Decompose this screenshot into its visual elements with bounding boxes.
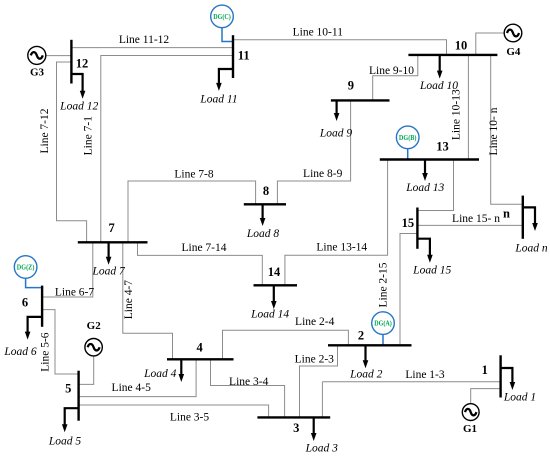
- wire Line 1-3 riser: [321, 382, 323, 418]
- load arrow Load 13: [424, 160, 426, 176]
- svg-text:Line 7-14: Line 7-14: [181, 242, 226, 254]
- svg-text:13: 13: [436, 140, 449, 154]
- svg-text:Line 4-5: Line 4-5: [112, 382, 152, 394]
- svg-text:10: 10: [455, 39, 468, 53]
- wire bus 13 to bus 15: [417, 160, 453, 211]
- wire Line 7-14: [138, 242, 263, 285]
- svg-text:9: 9: [348, 78, 354, 92]
- svg-text:Load 8: Load 8: [246, 228, 280, 240]
- bus 12: [70, 40, 72, 84]
- wire Line 9-10: [373, 55, 418, 101]
- svg-text:Line 3-5: Line 3-5: [170, 411, 210, 423]
- svg-text:DG(B): DG(B): [399, 134, 417, 142]
- svg-text:Load 13: Load 13: [405, 182, 444, 194]
- svg-text:Load 10: Load 10: [419, 80, 458, 92]
- svg-text:Line 9-10: Line 9-10: [369, 65, 414, 77]
- svg-text:12: 12: [76, 57, 89, 71]
- svg-text:Load 11: Load 11: [199, 93, 237, 105]
- DG unit DG(Z): [14, 256, 37, 279]
- load arrow Load 12: [71, 74, 82, 93]
- load arrow Load 3: [313, 417, 315, 435]
- load arrow Load 4: [180, 359, 182, 376]
- svg-text:Line 10- n: Line 10- n: [488, 107, 500, 155]
- DG unit DG(B): [396, 126, 419, 149]
- generator G4: [504, 24, 522, 42]
- svg-text:n: n: [503, 207, 510, 221]
- wire Line 10-n: [491, 55, 523, 204]
- load arrow Load 14: [273, 285, 275, 303]
- wire Line 11-12: [71, 47, 233, 49]
- bus 15: [416, 208, 418, 249]
- svg-text:Load 6: Load 6: [3, 346, 37, 358]
- svg-text:11: 11: [238, 49, 250, 63]
- wire DG(Z) to bus 6: [26, 278, 42, 288]
- wire Line 4-7: [123, 242, 173, 359]
- svg-text:Load 4: Load 4: [143, 368, 177, 380]
- svg-text:Line 10-13: Line 10-13: [451, 89, 463, 140]
- load arrow Load 1: [501, 368, 513, 385]
- svg-text:5: 5: [65, 382, 71, 396]
- generator G3: [28, 46, 46, 64]
- wire Line 10-13: [467, 55, 469, 160]
- svg-text:Line 2-15: Line 2-15: [378, 262, 390, 307]
- svg-text:Line 5-6: Line 5-6: [40, 332, 52, 372]
- load arrow Load 9: [336, 100, 338, 115]
- bus 3: [257, 416, 330, 418]
- svg-text:Load 5: Load 5: [48, 435, 82, 447]
- svg-text:Line 2-3: Line 2-3: [295, 354, 335, 366]
- wire Line 4-5: [79, 359, 197, 396]
- svg-text:G2: G2: [87, 320, 102, 332]
- bus 1: [499, 355, 501, 397]
- bus 8: [244, 203, 286, 205]
- svg-text:Line 3-4: Line 3-4: [229, 376, 269, 388]
- wire Line 2-3: [300, 345, 338, 417]
- bus 4: [167, 358, 234, 360]
- svg-text:7: 7: [108, 221, 114, 235]
- svg-text:Line 2-4: Line 2-4: [295, 316, 335, 328]
- wire DG(C) to bus 11: [222, 28, 233, 42]
- bus 14: [254, 284, 298, 286]
- load arrow Load 2: [364, 345, 366, 362]
- svg-text:Line 13-14: Line 13-14: [316, 242, 367, 254]
- wire G3 to bus 12: [46, 55, 72, 57]
- svg-text:DG(C): DG(C): [213, 13, 231, 21]
- svg-text:Line 1-3: Line 1-3: [405, 369, 445, 381]
- svg-text:Line 15- n: Line 15- n: [452, 213, 500, 225]
- load arrow Load 5: [65, 408, 79, 426]
- bus n: [522, 196, 524, 239]
- svg-text:DG(Z): DG(Z): [17, 263, 35, 271]
- generator G2: [85, 339, 102, 356]
- bus 7: [78, 241, 148, 243]
- svg-text:Load 14: Load 14: [250, 309, 289, 321]
- wire G2 to bus 5: [79, 356, 94, 385]
- svg-text:Load 7: Load 7: [91, 266, 126, 278]
- svg-text:G3: G3: [30, 67, 45, 79]
- svg-text:DG(A): DG(A): [374, 320, 392, 328]
- svg-text:Load 3: Load 3: [305, 443, 339, 455]
- svg-text:Line 11-12: Line 11-12: [119, 34, 170, 46]
- svg-text:Load 15: Load 15: [412, 265, 451, 277]
- wire Line 13-14: [285, 160, 388, 286]
- wire Line 2-4: [223, 330, 349, 359]
- svg-text:Load 9: Load 9: [319, 128, 353, 140]
- wire Line 7-12: [57, 62, 87, 242]
- bus 2: [328, 344, 412, 346]
- DG unit DG(A): [372, 312, 395, 335]
- wire Line 7-1: [101, 56, 233, 243]
- wire Line 10-11: [233, 40, 447, 55]
- svg-text:6: 6: [22, 296, 28, 310]
- bus 11: [232, 35, 234, 78]
- wire Line 2-15: [400, 234, 417, 346]
- DG unit DG(C): [211, 5, 234, 28]
- svg-text:Line 6-7: Line 6-7: [55, 287, 95, 299]
- bus 10: [408, 54, 497, 56]
- svg-text:Line 8-9: Line 8-9: [303, 168, 343, 180]
- svg-text:Line 7-12: Line 7-12: [39, 108, 51, 153]
- svg-text:2: 2: [358, 329, 364, 343]
- wire Line 3-4: [211, 359, 285, 417]
- wire G4 to bus 10: [476, 33, 504, 55]
- svg-text:8: 8: [263, 184, 269, 198]
- wire Line 15-n: [417, 224, 522, 226]
- svg-text:G4: G4: [506, 46, 521, 58]
- load arrow Load 15: [417, 239, 430, 257]
- bus 6: [41, 286, 43, 327]
- svg-text:1: 1: [482, 363, 488, 377]
- bus 9: [331, 99, 390, 101]
- svg-text:Line 7-8: Line 7-8: [174, 169, 214, 181]
- wire Line 1-3: [322, 381, 500, 383]
- generator G1: [462, 404, 479, 421]
- svg-text:Load 12: Load 12: [59, 100, 98, 112]
- svg-text:G1: G1: [463, 423, 477, 435]
- svg-text:14: 14: [268, 265, 281, 279]
- wire DG(A) to bus 2: [382, 334, 384, 345]
- svg-text:Load 2: Load 2: [349, 368, 383, 380]
- load arrow Load 7: [107, 242, 109, 258]
- wire Line 8-9: [277, 100, 350, 204]
- wire Line 6-7: [42, 242, 93, 297]
- svg-text:Line 10-11: Line 10-11: [293, 26, 344, 38]
- bus 13: [380, 158, 479, 160]
- wire Line 7-8: [128, 181, 256, 242]
- wire G1 to bus 1: [471, 389, 501, 404]
- wire Line 5-6: [42, 310, 79, 374]
- svg-text:Line 4-7: Line 4-7: [123, 280, 135, 320]
- bus 5: [77, 371, 79, 421]
- svg-text:Load n: Load n: [514, 243, 548, 255]
- svg-text:Load 1: Load 1: [503, 392, 536, 404]
- wire DG(B) to bus 13: [407, 149, 409, 160]
- svg-text:3: 3: [293, 421, 299, 435]
- load arrow Load 6: [28, 317, 42, 334]
- svg-text:Line 7-1: Line 7-1: [83, 116, 95, 156]
- load arrow Load n: [523, 207, 535, 225]
- svg-text:15: 15: [402, 216, 415, 230]
- load arrow Load 11: [219, 69, 233, 85]
- load arrow Load 10: [439, 55, 441, 73]
- load arrow Load 8: [262, 204, 264, 220]
- wire Line 3-5: [79, 405, 269, 417]
- svg-text:4: 4: [196, 340, 203, 354]
